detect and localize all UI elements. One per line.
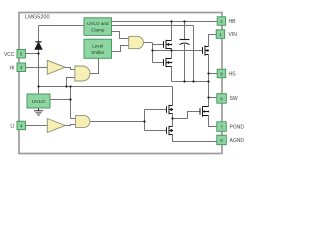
wire branch to SW pin	[209, 97, 218, 99]
wire HI to buffer	[26, 67, 48, 69]
wire LS mid riser to big FET gate	[188, 112, 201, 119]
wire VCC down to UVLO	[38, 54, 40, 95]
svg-text:8: 8	[220, 96, 223, 101]
svg-text:AGND: AGND	[230, 138, 245, 144]
node UVLO vertical top	[69, 85, 71, 87]
svg-text:2: 2	[220, 19, 223, 24]
wire SW net vertical	[208, 55, 210, 98]
wire HB vertical from diode	[38, 26, 40, 54]
wire branch to HS pin	[209, 73, 218, 75]
svg-text:3: 3	[20, 65, 23, 70]
IC boundary LMG5200	[19, 13, 222, 154]
node HS driver mid	[170, 49, 172, 51]
svg-text:HS: HS	[229, 72, 237, 78]
transistor Q4 low-side driver upper FET	[167, 105, 174, 115]
node HB rail at Q1 drain	[170, 20, 172, 22]
block Level Shifter	[84, 39, 112, 58]
node gate bus mid	[151, 49, 153, 51]
wire SW rail	[172, 81, 209, 83]
svg-text:Clamp: Clamp	[91, 27, 105, 32]
svg-text:4: 4	[20, 123, 23, 128]
wire AND3 output	[90, 121, 145, 123]
pin AGND	[217, 135, 245, 145]
wire riser to AND1 lower input	[67, 78, 75, 87]
wire FET1 source riser	[171, 49, 173, 51]
pin HS	[217, 69, 236, 78]
wire tap to FET2 gate	[153, 62, 164, 64]
svg-text:HB: HB	[229, 19, 237, 25]
wire long vertical to SW rail	[193, 26, 195, 82]
node SW rail at long vertical	[192, 80, 194, 82]
bootstrap capacitor	[180, 40, 190, 45]
svg-text:PGND: PGND	[230, 125, 245, 131]
bootstrap diode	[35, 42, 42, 50]
wire UVLO-Clamp mid out long	[112, 25, 194, 27]
wire LS mid line	[173, 118, 188, 120]
svg-text:7: 7	[220, 125, 223, 130]
transistor Q3 high-side GaN FET	[203, 45, 210, 56]
svg-text:Level: Level	[92, 44, 103, 49]
pin VIN	[216, 30, 237, 39]
svg-text:5: 5	[20, 52, 23, 57]
transistor Q1 high-side driver upper FET	[164, 40, 173, 50]
node HB rail at cap	[183, 20, 185, 22]
wire VCC rail	[39, 86, 173, 88]
wire AND1 output to level shifter	[90, 58, 99, 73]
svg-text:SW: SW	[230, 96, 238, 102]
wire LS gate bus	[144, 110, 146, 131]
wire LI to buffer2	[26, 125, 48, 127]
wire big HS FET drain to VIN	[209, 35, 217, 47]
wire to AND3 top input	[71, 118, 76, 120]
wire VCC to diode node	[26, 53, 39, 55]
wire HS mid line to big FET gate	[153, 50, 203, 52]
wire AND2 output	[143, 42, 152, 44]
wire cap top riser	[184, 22, 186, 40]
svg-text:UVLO and: UVLO and	[87, 21, 109, 26]
wire FET4 source to AGND	[173, 135, 218, 142]
node VCC diode	[37, 52, 39, 54]
svg-text:9: 9	[220, 71, 223, 76]
node HS pin branch	[207, 72, 209, 74]
svg-text:Shifter: Shifter	[91, 50, 105, 55]
pin SW	[217, 94, 238, 104]
pin HI	[10, 63, 26, 72]
wire tap to FET3 gate	[145, 109, 167, 111]
wire HB rail to HB pin	[112, 21, 218, 23]
wire FET3 source riser	[172, 114, 174, 119]
transistor Q6 low-side GaN FET	[200, 106, 209, 117]
transistor Q5 low-side driver lower FET	[167, 126, 174, 136]
svg-text:HI: HI	[10, 65, 15, 71]
wire FET1 drain riser	[171, 22, 173, 41]
wire UVLO-Clamp out to AND2 top input	[112, 32, 129, 39]
node SW rail right	[207, 80, 209, 82]
node SW pin branch	[207, 96, 209, 98]
node UVLO output	[69, 98, 71, 100]
wire level shifter out to AND2 bottom input	[112, 46, 129, 52]
node LS bus input	[143, 120, 145, 122]
transistor Q2 high-side driver lower FET	[164, 58, 173, 68]
svg-text:VIN: VIN	[229, 32, 238, 38]
wire FET2 source riser	[171, 67, 173, 82]
block UVLO and Clamp	[84, 18, 112, 36]
pin LI	[10, 121, 25, 130]
AND gate A3 LI path	[76, 116, 90, 128]
block UVLO	[27, 94, 50, 108]
ground AGND symbol under UVLO	[34, 108, 43, 115]
wire tap to FET4 gate	[145, 130, 167, 132]
AND gate A1 HI path	[75, 66, 90, 81]
pin HB	[217, 17, 236, 26]
buffer U2 LI path	[47, 119, 65, 133]
pin PGND	[217, 122, 245, 132]
node AND1 riser	[65, 85, 67, 87]
wire HS gate bus	[152, 43, 154, 63]
wire UVLO output	[50, 99, 71, 101]
wire tap to FET1 gate	[153, 44, 164, 46]
wire HB to UVLO-Clamp input	[39, 25, 85, 27]
svg-text:LMG5200: LMG5200	[25, 15, 50, 21]
svg-text:6: 6	[220, 138, 223, 143]
wire VCC rail corner to FET3 drain	[172, 87, 174, 106]
wire big LS FET source to PGND	[209, 116, 218, 127]
AND gate A2 high-side	[129, 36, 144, 48]
node LS driver mid	[171, 117, 173, 119]
node VCC rail left	[37, 85, 39, 87]
svg-text:LI: LI	[10, 124, 14, 130]
pin VCC	[4, 50, 26, 59]
svg-text:UVLO: UVLO	[32, 99, 45, 105]
wire big LS FET drain riser	[208, 98, 210, 107]
svg-text:1: 1	[219, 32, 222, 37]
wire buffer2 to AND3	[65, 125, 75, 126]
wire FET4 drain riser	[172, 119, 174, 127]
node SW rail at cap	[183, 80, 185, 82]
wire FET2 drain riser	[171, 51, 173, 59]
wire buffer1 to AND1	[65, 68, 75, 70]
wire UVLO net vertical	[70, 87, 72, 119]
svg-text:VCC: VCC	[4, 52, 15, 58]
buffer U1 HI path	[47, 60, 65, 74]
wire cap bottom riser	[184, 44, 186, 82]
junction dots	[37, 20, 209, 122]
